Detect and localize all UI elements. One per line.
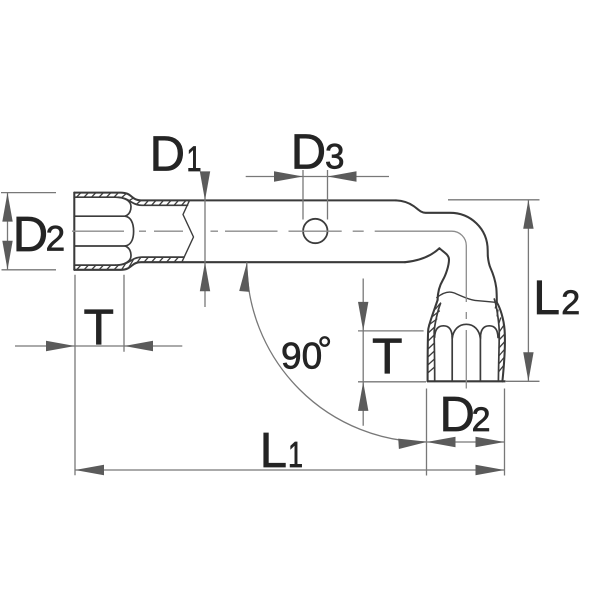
svg-text:D: D <box>291 125 326 179</box>
bottom socket internal broach profile <box>435 324 498 381</box>
down tube left edge flaring into bottom socket <box>428 300 438 381</box>
down tube right edge flaring into bottom socket <box>497 302 505 381</box>
bottom wall inner boundary <box>118 257 184 265</box>
hatch marks on left socket top wall <box>77 193 187 206</box>
svg-text:90: 90 <box>281 336 322 377</box>
svg-text:2: 2 <box>46 220 65 259</box>
vertical centerline of down tube <box>465 312 467 389</box>
socket wall inner lines (hatched band boundaries) <box>118 197 188 265</box>
lobe arc 2 (middle) <box>125 216 133 246</box>
svg-text:T: T <box>84 299 115 355</box>
dimension T left: extension lines <box>75 275 124 476</box>
dimension T bottom: dimension line <box>362 279 364 426</box>
wrench body: left socket head outer contour <box>74 193 405 270</box>
dimension D2 bottom: extension lines <box>427 389 505 476</box>
dimension D2 left: extension lines <box>1 193 56 270</box>
hatch marks on bottom socket right wall <box>495 302 505 372</box>
90 degree arc arrowheads <box>239 263 427 449</box>
svg-text:1: 1 <box>187 140 202 179</box>
right wall inner boundary <box>494 299 499 381</box>
svg-text:D: D <box>440 388 475 442</box>
dimension D1: arrowheads <box>200 171 210 291</box>
lobe arc 3 <box>116 246 132 265</box>
hatch marks on bottom socket left wall <box>428 303 441 373</box>
dimension D2 bottom: arrowheads pointing outward <box>427 437 505 447</box>
socket left face <box>73 193 75 270</box>
dimension L2: top extension line <box>448 199 540 201</box>
svg-text:2: 2 <box>472 401 491 439</box>
dimension L2: arrowheads pointing outward <box>523 200 533 381</box>
svg-text:1: 1 <box>288 434 303 475</box>
svg-text:3: 3 <box>325 138 344 177</box>
lobe divider line 1 <box>74 215 125 217</box>
top bore line <box>74 196 115 198</box>
dome arc 2 (middle) <box>452 324 480 338</box>
svg-text:L: L <box>260 424 287 478</box>
svg-text:L: L <box>533 272 560 325</box>
bottom socket mouth edge <box>428 380 505 382</box>
dimension L2: dimension line <box>527 200 529 381</box>
socket top outer edge with shoulder to shaft <box>74 193 396 201</box>
dimension L1: dimension line <box>75 469 505 471</box>
dome divider 1 <box>451 336 453 381</box>
svg-text:2: 2 <box>561 284 580 322</box>
dome arc 3 <box>480 326 498 338</box>
centerline corner at elbow <box>375 231 467 302</box>
dimension D2 left: dimension line <box>7 193 9 270</box>
lobe arc 1 <box>116 197 132 216</box>
svg-text:D: D <box>13 208 48 262</box>
elbow: shaft top step down and 90-degree outer bend <box>396 200 497 302</box>
dimension T left: dimension line <box>15 345 182 347</box>
90 degree angular dimension arc <box>247 262 427 442</box>
svg-text:T: T <box>372 328 403 384</box>
dome divider 2 <box>479 336 481 381</box>
lobe divider line 2 <box>74 245 125 247</box>
hatch marks on left socket bottom wall <box>77 257 179 270</box>
degree symbol <box>321 337 329 345</box>
dome arc 1 <box>435 326 453 338</box>
dimension D1: extension line through shaft <box>204 172 206 307</box>
bore break line (chevron) in shaft <box>182 200 194 262</box>
dimension D3: arrowheads <box>274 171 357 181</box>
dimension D2 bottom: dimension line <box>427 441 505 443</box>
dimension T bottom: extension lines <box>358 331 426 382</box>
elbow inner beak (cusp) <box>405 248 449 300</box>
dimension D3: dimension line with outside arrows <box>246 176 389 178</box>
top wall inner boundary <box>118 197 188 205</box>
dimension T left: arrowheads <box>46 341 153 351</box>
bottom socket wall inner lines <box>434 299 499 381</box>
left socket internal broach profile <box>74 197 133 265</box>
svg-text:D: D <box>150 128 185 182</box>
horizontal centerline of shaft <box>72 230 364 232</box>
dimension L1: arrowheads pointing outward <box>75 465 505 475</box>
cross hole in shaft <box>303 219 327 243</box>
socket bottom outer edge with shoulder to shaft <box>74 262 405 270</box>
bottom bore line <box>74 264 115 266</box>
left wall inner boundary <box>434 304 440 382</box>
dimension L2: bottom extension line from socket mouth <box>505 380 540 382</box>
dimension D2 left: arrowheads <box>2 193 12 270</box>
dimension D3: extension lines down to hole <box>303 170 328 220</box>
wavy forge line across bottom socket top <box>437 292 497 302</box>
dimension T bottom: arrowheads <box>358 302 368 411</box>
